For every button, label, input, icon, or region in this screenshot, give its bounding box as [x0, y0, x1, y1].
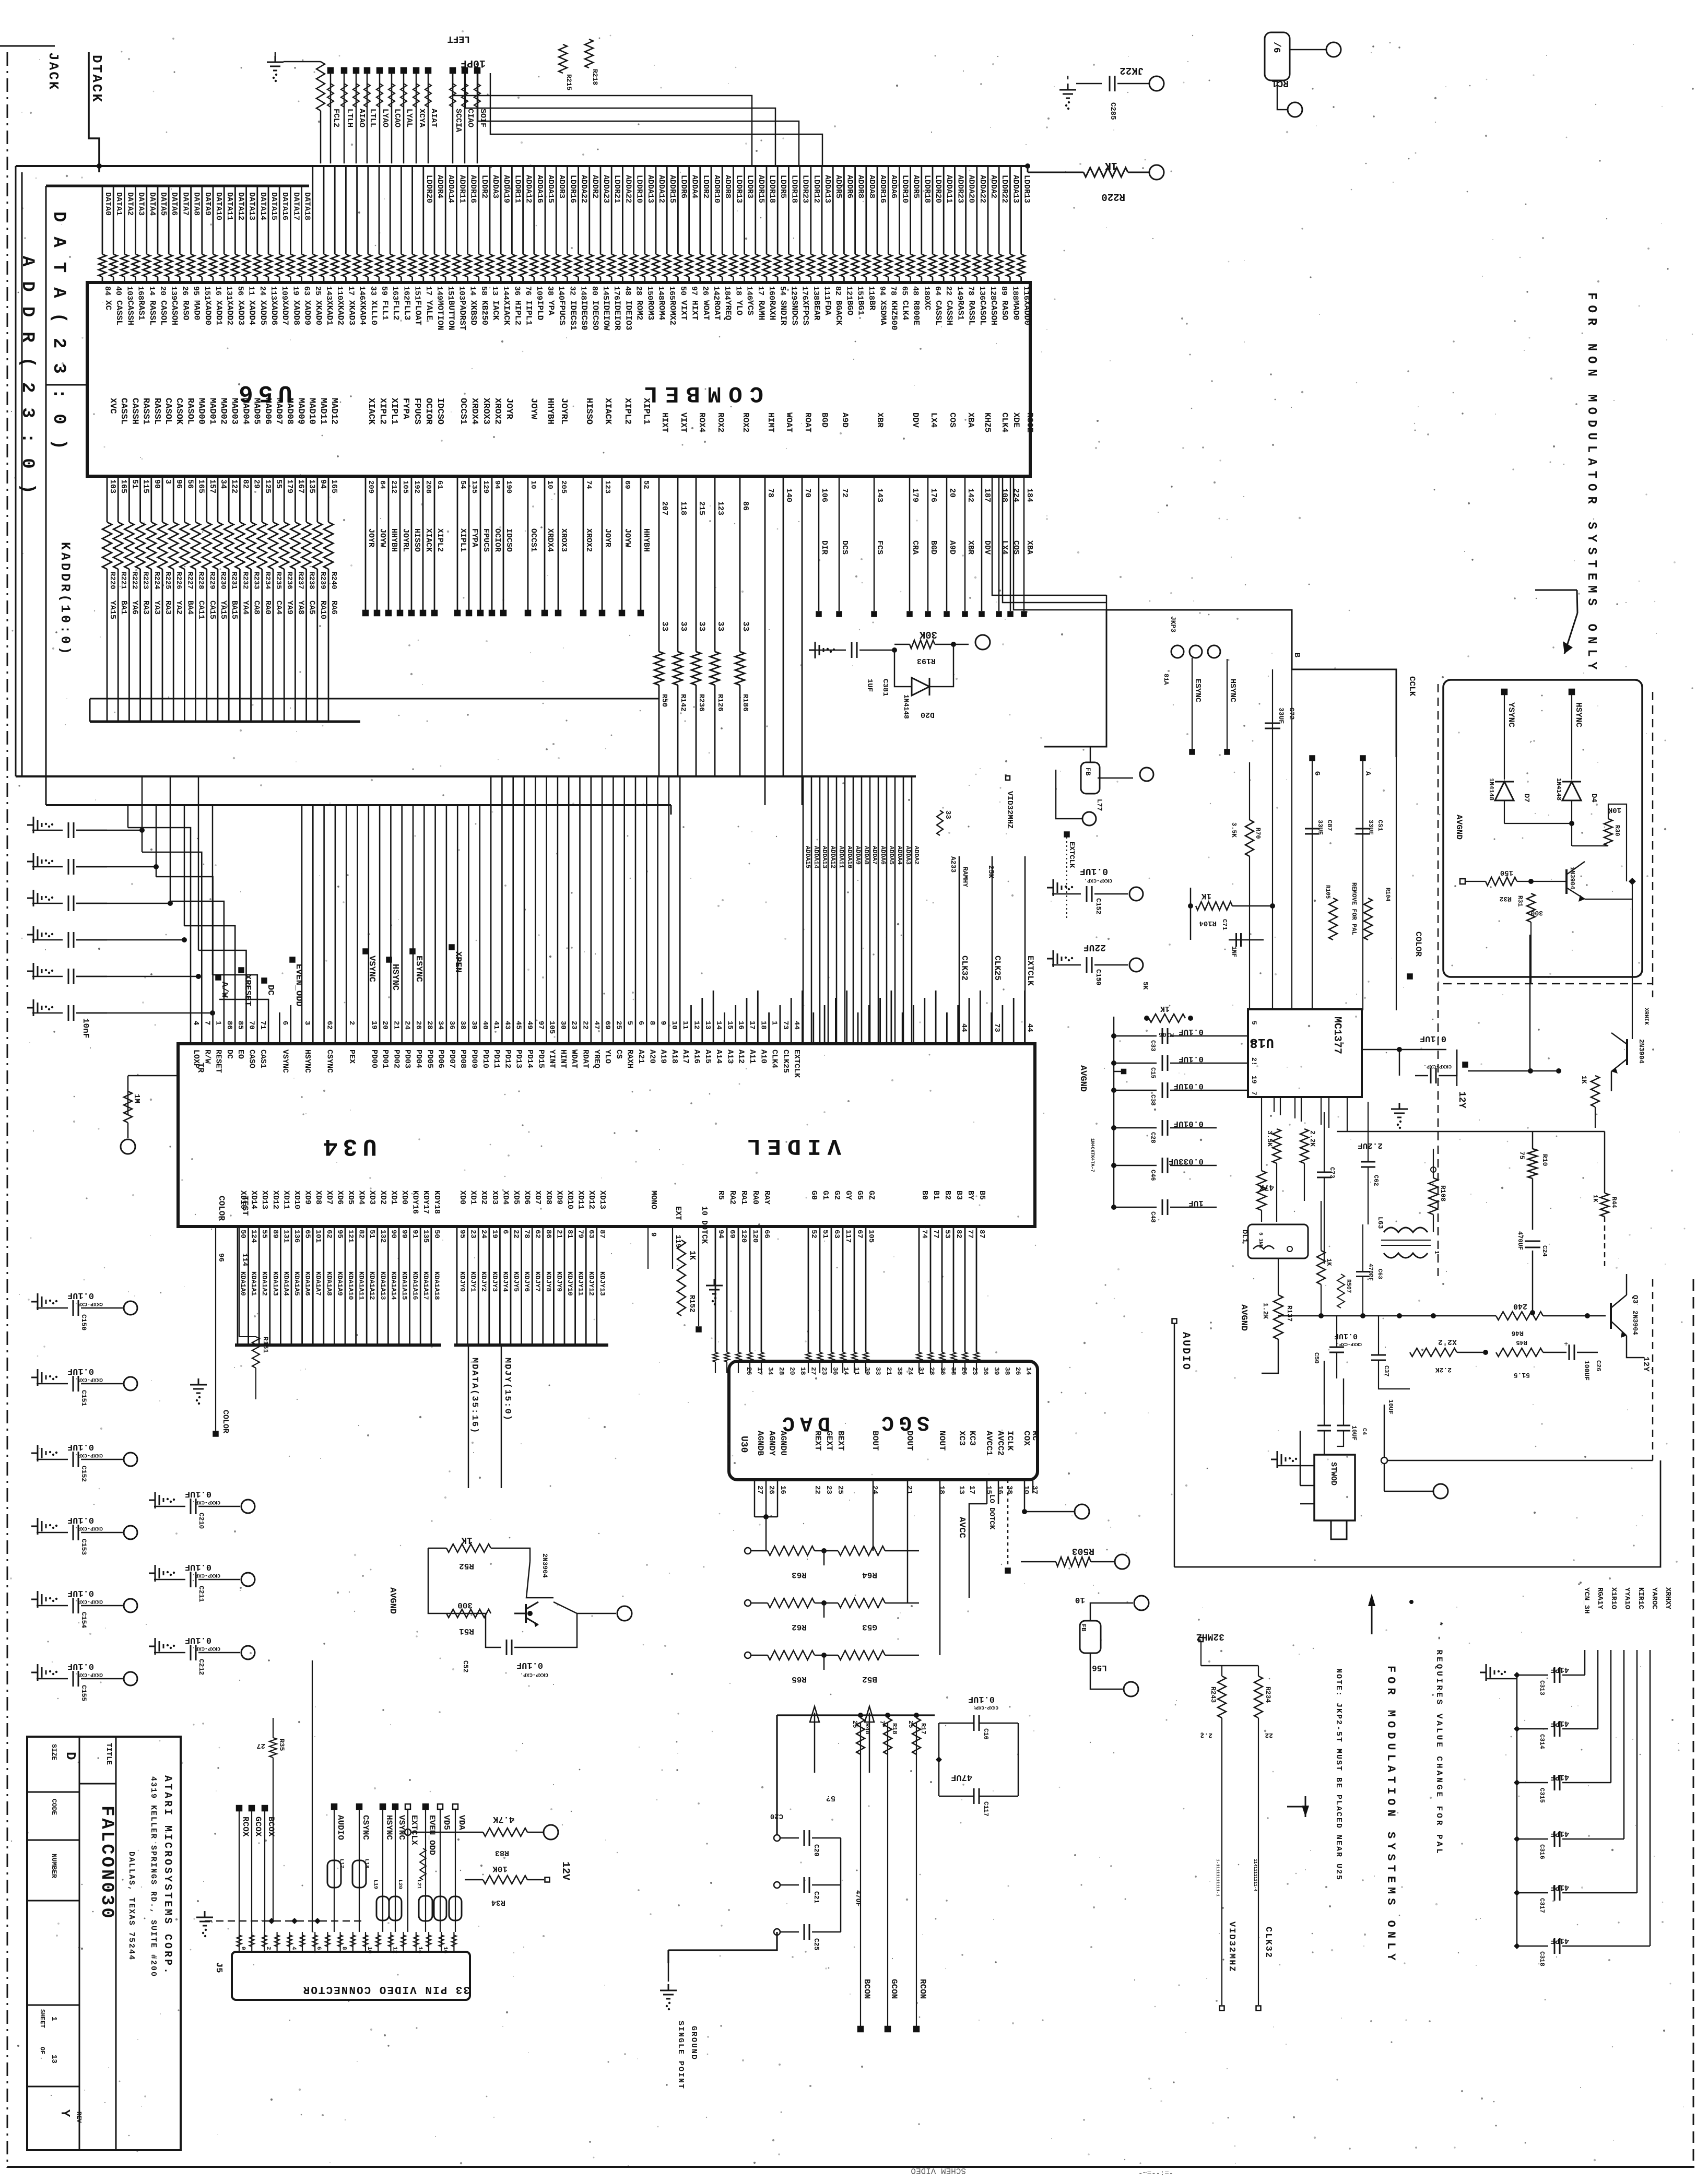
svg-text:CLK32: CLK32 [1263, 1927, 1273, 1959]
wire frame right up [1652, 1279, 1654, 1460]
svg-text:CA5: CA5 [308, 600, 316, 615]
svg-text:1NF: 1NF [1230, 946, 1238, 958]
svg-text:165: 165 [119, 479, 128, 493]
svg-text:A9D: A9D [840, 412, 850, 428]
wire sync chain square [1463, 1063, 1468, 1067]
svg-text:RA10: RA10 [319, 600, 327, 619]
svg-text:/6: /6 [1271, 42, 1281, 53]
svg-text:FB: FB [1084, 768, 1092, 776]
VIDEL top signal flags [216, 975, 221, 980]
svg-text:CASOH: CASOH [989, 300, 998, 325]
svg-text:TITLE: TITLE [104, 1743, 113, 1765]
svg-text:17: 17 [346, 286, 355, 296]
svg-text:33: 33 [944, 810, 952, 819]
svg-text:LDDR13: LDDR13 [1022, 175, 1031, 203]
svg-text:XADD4: XADD4 [248, 300, 257, 325]
svg-text:212: 212 [390, 480, 398, 493]
svg-text:ADDA6: ADDA6 [889, 175, 898, 198]
svg-text:24: 24 [258, 286, 267, 296]
svg-text:KDA1A15: KDA1A15 [401, 1271, 408, 1300]
svg-text:26: 26 [960, 1367, 968, 1375]
svg-text:208: 208 [424, 480, 432, 493]
svg-text:KHZ5: KHZ5 [983, 412, 992, 432]
svg-text:143: 143 [324, 286, 333, 300]
svg-text:YALE: YALE [425, 300, 434, 320]
svg-text:VSYNC: VSYNC [367, 956, 376, 982]
svg-text:70: 70 [803, 488, 812, 498]
sheet frame bottom [7, 2166, 1694, 2168]
svg-text:9: 9 [659, 1021, 667, 1025]
svg-text:ESYNC: ESYNC [1193, 679, 1202, 702]
svg-text:AVGND: AVGND [387, 1587, 397, 1614]
svg-text:LDDR18: LDDR18 [768, 175, 776, 203]
svg-text:69: 69 [603, 1021, 611, 1030]
modulator feed stubs [1324, 1361, 1325, 1405]
svg-text:MAD09: MAD09 [296, 398, 305, 425]
svg-text:44: 44 [960, 1023, 968, 1032]
svg-text:300: 300 [457, 1600, 473, 1610]
sheet frame top-left tick [0, 45, 55, 47]
svg-text:J5: J5 [214, 1962, 223, 1973]
svg-text:R186: R186 [741, 694, 749, 712]
svg-text:CKXP-CXP.: CKXP-CXP. [973, 1705, 998, 1710]
svg-text:JOYRL: JOYRL [559, 398, 569, 425]
svg-text:24: 24 [479, 1230, 488, 1239]
svg-text:YA15: YA15 [108, 600, 117, 619]
svg-text:47K: 47K [1259, 1183, 1274, 1192]
connector J5 box [232, 1952, 470, 2000]
svg-text:0.1UF: 0.1UF [67, 1442, 94, 1452]
svg-text:XBA: XBA [966, 412, 975, 428]
svg-text:JOYW: JOYW [528, 398, 538, 420]
resistor R220 pullup [1028, 172, 1083, 173]
svg-text:C381: C381 [881, 679, 889, 697]
svg-text:DATA5: DATA5 [159, 192, 168, 216]
svg-text:78: 78 [523, 1230, 531, 1239]
svg-text:103: 103 [125, 286, 134, 300]
svg-text:CKXP-CXP.: CKXP-CXP. [1084, 877, 1112, 883]
svg-text:25: 25 [851, 1720, 858, 1728]
svg-text:BEXT: BEXT [836, 1431, 845, 1451]
svg-text:AVCC: AVCC [957, 1517, 967, 1538]
DATA bus left drop [45, 186, 47, 805]
svg-text:IDEIOR: IDEIOR [612, 300, 622, 331]
svg-text:25K: 25K [986, 865, 995, 879]
svg-text:DDV: DDV [911, 412, 920, 428]
svg-text:R64: R64 [862, 1570, 877, 1579]
svg-text:105: 105 [401, 480, 409, 493]
svg-text:176: 176 [800, 286, 809, 300]
svg-text:36: 36 [447, 1021, 456, 1030]
svg-text:C152: C152 [1094, 898, 1102, 914]
svg-text:RA3: RA3 [142, 600, 150, 615]
svg-text:CASOL: CASOL [978, 300, 987, 325]
svg-text:DALLAS, TEXAS 75244: DALLAS, TEXAS 75244 [127, 1852, 136, 1961]
svg-text:MAD0: MAD0 [1011, 300, 1020, 320]
svg-text:XD11: XD11 [576, 1190, 585, 1209]
svg-text:71: 71 [258, 1021, 267, 1030]
svg-text:XKAD0: XKAD0 [314, 300, 323, 325]
svg-text:G0: G0 [809, 1190, 818, 1200]
svg-text:22UF: 22UF [1083, 942, 1106, 952]
svg-text:ADDA4: ADDA4 [896, 846, 903, 865]
svg-text:NUMBER: NUMBER [50, 1854, 58, 1878]
svg-text:78: 78 [766, 488, 775, 498]
svg-text:94: 94 [878, 286, 887, 296]
svg-text:R108: R108 [1439, 1185, 1447, 1201]
svg-text:LDDR20: LDDR20 [934, 175, 943, 203]
svg-text:C63: C63 [1376, 1269, 1383, 1279]
svg-text:JK22: JK22 [1120, 65, 1144, 76]
svg-text:ADDA3: ADDA3 [491, 175, 500, 198]
svg-text:C28: C28 [1149, 1132, 1157, 1143]
svg-text:ADDA2: ADDA2 [913, 846, 920, 865]
svg-text:150: 150 [1500, 868, 1513, 877]
svg-text:IACK: IACK [491, 300, 500, 321]
svg-text:16: 16 [779, 1486, 787, 1494]
svg-text:COLOR: COLOR [1413, 932, 1423, 957]
svg-text:209: 209 [367, 480, 375, 493]
svg-text:YA3: YA3 [152, 600, 161, 615]
svg-text:GY: GY [844, 1190, 853, 1200]
svg-text:TEST: TEST [240, 1196, 250, 1216]
svg-text:82: 82 [241, 479, 250, 489]
svg-text:XFPCS: XFPCS [801, 300, 810, 325]
svg-text:33: 33 [716, 621, 725, 631]
svg-text:R83: R83 [495, 1848, 509, 1857]
svg-text:1: 1 [1250, 1039, 1258, 1043]
svg-text:XRHXY: XRHXY [1664, 1587, 1672, 1610]
svg-text:YLO: YLO [734, 300, 744, 315]
svg-text:CKXP-CXP.: CKXP-CXP. [520, 1671, 548, 1677]
svg-text:51: 51 [130, 479, 139, 489]
svg-text:KDA1A13: KDA1A13 [379, 1271, 387, 1300]
svg-text:C48: C48 [1149, 1211, 1157, 1223]
svg-text:XKAD1: XKAD1 [325, 300, 334, 325]
svg-text:XSDMA: XSDMA [878, 300, 888, 325]
svg-text:CODE: CODE [50, 1799, 58, 1815]
svg-text:RASSL: RASSL [152, 398, 162, 425]
svg-text:33: 33 [660, 621, 669, 631]
svg-text:IDCSO: IDCSO [504, 528, 513, 552]
svg-text:B: B [1292, 653, 1301, 657]
svg-text:96: 96 [174, 479, 183, 489]
resistor 47K [1257, 1171, 1266, 1210]
svg-text:AIAO: AIAO [357, 109, 366, 127]
svg-text:132: 132 [379, 1230, 387, 1243]
svg-text:CASSH: CASSH [945, 300, 954, 325]
svg-text:51.5: 51.5 [1514, 1371, 1530, 1379]
svg-text:49: 49 [525, 1021, 534, 1030]
svg-text:165: 165 [329, 479, 338, 493]
ferrite FB L77 [1081, 762, 1100, 794]
svg-text:PD00: PD00 [370, 1050, 379, 1068]
svg-text:28: 28 [928, 1367, 936, 1375]
svg-text:C16: C16 [982, 1728, 990, 1740]
svg-text:136: 136 [977, 286, 986, 300]
svg-text:HHYBH: HHYBH [545, 398, 555, 425]
svg-text:L17: L17 [338, 1859, 344, 1868]
svg-text:RA0: RA0 [263, 600, 272, 615]
title block [27, 1737, 181, 2150]
svg-text:113: 113 [269, 286, 278, 300]
svg-text:A11: A11 [748, 1050, 757, 1064]
svg-text:VIXT: VIXT [679, 300, 688, 321]
svg-text:142: 142 [966, 488, 975, 502]
svg-text:145: 145 [601, 286, 610, 300]
svg-text:20: 20 [948, 488, 957, 498]
svg-text:C25: C25 [812, 1938, 820, 1951]
svg-text:DATA15: DATA15 [269, 192, 278, 220]
svg-text:CASSL: CASSL [119, 398, 128, 425]
svg-text:75: 75 [1518, 1151, 1526, 1160]
svg-text:COMBEL: COMBEL [637, 380, 763, 406]
svg-text:ADDA14: ADDA14 [446, 175, 455, 203]
svg-text:3.5K: 3.5K [1266, 1130, 1274, 1147]
svg-text:AVGND: AVGND [1078, 1065, 1088, 1092]
svg-text:CKXP-CXP.: CKXP-CXP. [192, 1572, 220, 1578]
svg-text:KDJY6: KDJY6 [523, 1271, 531, 1292]
svg-text:165: 165 [667, 286, 676, 300]
svg-text:ADDA2: ADDA2 [989, 175, 998, 198]
bypass caps C313-C318 [1480, 1664, 1506, 1681]
svg-text:RAXH: RAXH [768, 300, 777, 320]
svg-text:XROX3: XROX3 [481, 398, 491, 425]
svg-text:110: 110 [335, 286, 344, 300]
svg-text:69: 69 [728, 1230, 736, 1239]
svg-text:CLK4: CLK4 [1000, 412, 1009, 433]
svg-text:15: 15 [725, 1021, 734, 1030]
bus stub y737 [46, 384, 87, 386]
svg-text:19: 19 [490, 1230, 499, 1239]
svg-text:YREQ: YREQ [592, 1050, 601, 1068]
svg-text:101: 101 [314, 1230, 322, 1243]
svg-text:32: 32 [568, 286, 576, 296]
svg-text:DATA0: DATA0 [103, 192, 112, 216]
svg-text:24: 24 [403, 1021, 411, 1030]
svg-text:ROAT: ROAT [712, 300, 722, 321]
svg-text:XADD0: XADD0 [1022, 300, 1032, 325]
svg-text:DDV: DDV [983, 540, 992, 555]
svg-text:MDJY(15:0): MDJY(15:0) [502, 1358, 512, 1421]
svg-text:3.5K: 3.5K [1230, 822, 1238, 838]
svg-text:KDA1A17: KDA1A17 [422, 1271, 430, 1300]
svg-text:R226: R226 [174, 572, 183, 590]
svg-text:OCIOR: OCIOR [423, 398, 433, 425]
svg-text:CLK4: CLK4 [900, 300, 910, 321]
svg-text:XIACK: XIACK [603, 398, 612, 425]
svg-text:XADD5: XADD5 [258, 300, 268, 325]
svg-text:JKP3: JKP3 [1169, 616, 1177, 632]
svg-text:MAD03: MAD03 [229, 398, 239, 425]
svg-text:28: 28 [425, 1021, 433, 1030]
svg-text:HISSO: HISSO [413, 528, 421, 552]
analog ground rail [777, 1714, 935, 1716]
svg-text:94: 94 [716, 1230, 725, 1239]
svg-text:R104: R104 [1384, 888, 1391, 902]
svg-text:37: 37 [1030, 1486, 1039, 1494]
svg-text:XD12: XD12 [271, 1190, 280, 1209]
svg-text:129: 129 [481, 480, 490, 493]
svg-text:ADDA8: ADDA8 [867, 175, 876, 198]
svg-text:ADDA22: ADDA22 [978, 175, 987, 203]
svg-text:33: 33 [741, 621, 750, 631]
svg-text:PEX: PEX [347, 1050, 356, 1064]
svg-text:17: 17 [756, 286, 765, 296]
svg-text:CKXP-CXP.: CKXP-CXP. [1336, 1341, 1362, 1347]
svg-text:80: 80 [590, 286, 599, 296]
svg-text:ADDA3: ADDA3 [904, 846, 912, 865]
svg-text:CKXP-CXP.: CKXP-CXP. [75, 1671, 103, 1677]
svg-text:BCON: BCON [862, 1979, 871, 1999]
svg-text:CRA: CRA [911, 540, 920, 555]
svg-text:90: 90 [389, 1230, 397, 1239]
svg-text:C87: C87 [1326, 820, 1333, 831]
svg-text:AGNDU: AGNDU [779, 1431, 788, 1456]
svg-text:207: 207 [660, 501, 669, 515]
svg-text:240: 240 [1513, 1302, 1527, 1311]
svg-text:CASSH: CASSH [125, 300, 135, 325]
svg-text:XADD9: XADD9 [303, 300, 312, 325]
svg-text:36: 36 [831, 1367, 839, 1375]
svg-text:38: 38 [1005, 1486, 1014, 1494]
svg-text:109: 109 [280, 286, 289, 300]
svg-text:300: 300 [1530, 909, 1543, 917]
svg-text:MAD08: MAD08 [285, 398, 295, 425]
svg-text:D: D [63, 1752, 78, 1760]
svg-text:0: 0 [240, 1947, 246, 1950]
svg-text:JOYW: JOYW [378, 528, 387, 547]
svg-text:120: 120 [739, 1230, 748, 1243]
svg-text:R50: R50 [660, 694, 668, 707]
svg-text:C317: C317 [1538, 1898, 1546, 1913]
svg-text:FCS: FCS [875, 540, 884, 555]
svg-text:39: 39 [993, 1367, 1000, 1375]
svg-text:XADD8: XADD8 [291, 300, 301, 325]
svg-text:ADDA13: ADDA13 [646, 175, 655, 203]
svg-text:23: 23 [824, 1486, 833, 1494]
svg-text:12V: 12V [559, 1861, 571, 1880]
svg-text:RASOL: RASOL [185, 398, 195, 425]
svg-text:KDA1A14: KDA1A14 [390, 1271, 397, 1300]
svg-text:59: 59 [380, 286, 388, 296]
svg-text:215: 215 [697, 501, 706, 515]
svg-text:131: 131 [281, 1230, 290, 1243]
svg-text:64: 64 [933, 286, 942, 296]
U18 bottom wires [1274, 1097, 1275, 1112]
resistor 1M TR pin [127, 1076, 129, 1115]
svg-text:19: 19 [291, 286, 300, 296]
svg-text:VID32MHZ: VID32MHZ [1227, 1921, 1236, 1973]
RGB CON outputs [860, 1723, 861, 2026]
svg-text:AGNDY: AGNDY [767, 1431, 776, 1456]
svg-text:5: 5 [1250, 1021, 1258, 1025]
svg-text:R142: R142 [679, 694, 687, 712]
svg-text:11: 11 [247, 286, 256, 296]
svg-text:73: 73 [993, 1023, 1001, 1032]
svg-text:B0: B0 [920, 1190, 929, 1200]
svg-text:BUTTON: BUTTON [446, 300, 456, 331]
svg-text:17: 17 [424, 286, 433, 296]
bus KADDR line2 [90, 698, 659, 700]
ferrite L56 [1080, 1621, 1101, 1653]
svg-text:86: 86 [741, 501, 750, 511]
svg-text:ADDA11: ADDA11 [838, 846, 845, 868]
svg-text:14: 14 [1025, 1367, 1033, 1375]
svg-text:KDA1A12: KDA1A12 [368, 1271, 376, 1300]
svg-text:R215: R215 [565, 74, 573, 90]
svg-text:56: 56 [185, 479, 194, 489]
svg-text:23: 23 [820, 1367, 828, 1375]
svg-text:29: 29 [252, 479, 261, 489]
svg-text:REXT: REXT [813, 1431, 822, 1451]
svg-text:ADDA20: ADDA20 [967, 175, 976, 203]
clock input wires [1024, 856, 1026, 1044]
svg-text:EVEN_ODD: EVEN_ODD [427, 1815, 437, 1855]
svg-text:RA3: RA3 [163, 600, 172, 615]
svg-text:XD4: XD4 [501, 1190, 510, 1205]
svg-text:38: 38 [458, 1021, 467, 1030]
svg-text:82: 82 [357, 1230, 366, 1239]
svg-text:26: 26 [180, 286, 189, 296]
svg-text:0.1UF: 0.1UF [67, 1366, 94, 1376]
svg-text:LDDR12: LDDR12 [812, 175, 821, 203]
svg-text:85: 85 [236, 1021, 244, 1030]
svg-text:XIPL1: XIPL1 [458, 528, 467, 552]
svg-text:CAS1: CAS1 [258, 1050, 267, 1068]
svg-text:VID32MHZ: VID32MHZ [1005, 791, 1014, 829]
svg-text:73: 73 [781, 1021, 790, 1030]
svg-text:470UF: 470UF [1516, 1231, 1524, 1250]
svg-text:BY: BY [966, 1190, 975, 1200]
svg-text:R45: R45 [1516, 1339, 1527, 1346]
jumper JKP3 / CCLK nets [1106, 610, 1396, 757]
wire sync chain vertical [1529, 935, 1531, 1071]
svg-text:MAD12: MAD12 [329, 398, 339, 425]
svg-text:YINT: YINT [548, 1050, 557, 1068]
svg-text:C153: C153 [80, 1539, 88, 1555]
svg-text:R243: R243 [1209, 1687, 1217, 1703]
bus mid h2 drops [670, 805, 672, 815]
svg-text:0.1UF: 0.1UF [185, 1635, 211, 1645]
svg-text:OCCS1: OCCS1 [458, 398, 468, 425]
svg-text:117: 117 [844, 1230, 852, 1243]
svg-text:IDEIOW: IDEIOW [602, 300, 611, 331]
svg-text:XROX3: XROX3 [559, 528, 568, 552]
svg-text:CS1: CS1 [1376, 820, 1384, 831]
audio output network [1273, 1129, 1281, 1163]
svg-text:CASOK: CASOK [174, 398, 184, 425]
svg-text:KDA1A9: KDA1A9 [336, 1271, 344, 1296]
svg-text:XCYA: XCYA [417, 109, 426, 127]
svg-text:XRDX4: XRDX4 [546, 528, 555, 552]
svg-text:COS: COS [948, 412, 957, 428]
svg-text:DATA10: DATA10 [214, 192, 223, 220]
svg-text:90: 90 [152, 479, 161, 489]
svg-text:1N4148: 1N4148 [902, 694, 910, 719]
svg-text:C154: C154 [80, 1612, 88, 1628]
svg-text:XIPL2: XIPL2 [378, 398, 387, 425]
svg-text:10: 10 [366, 1947, 372, 1953]
svg-text:KDA1A2: KDA1A2 [261, 1271, 268, 1296]
svg-text:R228: R228 [197, 572, 205, 590]
svg-text:R17: R17 [920, 1723, 927, 1735]
svg-text:157: 157 [208, 479, 217, 493]
svg-text:33: 33 [679, 621, 688, 631]
svg-text:R18: R18 [891, 1723, 898, 1735]
svg-text:15: 15 [984, 1486, 993, 1494]
svg-text:150: 150 [645, 286, 654, 300]
